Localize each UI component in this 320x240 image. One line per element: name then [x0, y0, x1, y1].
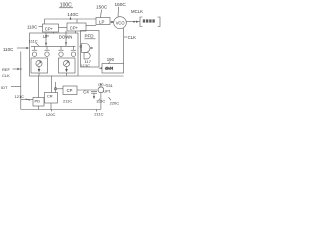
svg-text:140C: 140C [67, 12, 79, 17]
svg-text:111C: 111C [29, 38, 38, 43]
svg-text:(A): (A) [98, 83, 104, 87]
svg-text:UP: UP [43, 34, 49, 39]
svg-text:CLK: CLK [128, 35, 136, 40]
svg-text:PFD: PFD [85, 34, 95, 39]
svg-text:121C: 121C [15, 94, 25, 99]
svg-text:REF: REF [2, 67, 11, 72]
svg-text:C4: C4 [83, 90, 89, 95]
svg-text:CLK: CLK [2, 73, 10, 78]
svg-text:VCO: VCO [116, 20, 125, 25]
svg-text:220C: 220C [110, 101, 120, 106]
svg-text:divN: divN [105, 66, 113, 71]
svg-text:190: 190 [107, 57, 115, 62]
svg-text:113C: 113C [81, 63, 90, 68]
svg-text:100C: 100C [60, 2, 72, 8]
svg-text:IDT: IDT [1, 85, 8, 90]
svg-text:160C: 160C [115, 2, 127, 7]
svg-text:PD: PD [35, 99, 41, 104]
svg-text:120C: 120C [46, 112, 56, 117]
svg-text:110C: 110C [27, 24, 38, 29]
svg-text:CP+: CP+ [70, 26, 79, 31]
svg-text:CP+: CP+ [45, 27, 54, 32]
svg-text:115C: 115C [96, 99, 105, 104]
svg-text:211C: 211C [63, 98, 72, 103]
svg-text:150C: 150C [96, 5, 108, 10]
svg-text:110C: 110C [3, 47, 14, 52]
svg-text:LP: LP [99, 20, 104, 25]
svg-text:DOWN: DOWN [59, 34, 73, 39]
svg-text:211C: 211C [94, 112, 103, 117]
svg-text:CP: CP [67, 88, 73, 93]
svg-text:MCLK: MCLK [131, 9, 143, 14]
svg-text:UP1: UP1 [103, 90, 110, 94]
svg-text:CR: CR [47, 94, 53, 99]
svg-text:231: 231 [106, 83, 113, 88]
